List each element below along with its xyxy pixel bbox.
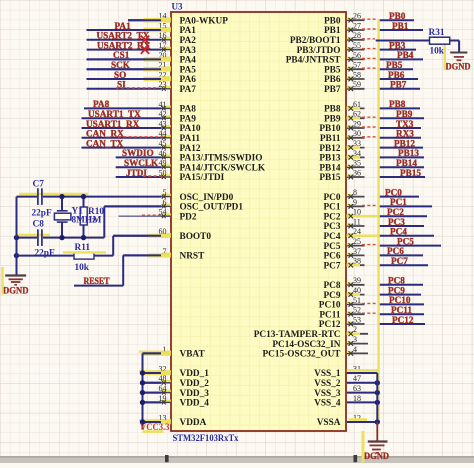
- pin 56 (PB4/JNTRST) with stub: [286, 51, 365, 66]
- svg-text:PB3: PB3: [389, 40, 406, 50]
- svg-text:PB6: PB6: [388, 70, 405, 80]
- net label PC6: [387, 246, 404, 256]
- ERC dash marker near pin 30: [362, 136, 378, 138]
- svg-text:11: 11: [353, 217, 361, 226]
- svg-text:PC13-TAMPER-RTC: PC13-TAMPER-RTC: [254, 330, 341, 340]
- pin 51 (PC10) with stub: [319, 296, 365, 311]
- net label PB3: [389, 40, 406, 50]
- resistor R31: [430, 37, 460, 44]
- ERC dash marker near pin 62: [362, 116, 378, 118]
- pin 47 (VSS_2) wire to VSS rail: [314, 374, 380, 389]
- svg-text:PA9: PA9: [180, 114, 197, 124]
- wire net PB12: [378, 147, 423, 149]
- net label PB7: [390, 80, 407, 90]
- pin 36 (PB15) with stub: [319, 168, 364, 183]
- svg-text:4: 4: [353, 345, 357, 354]
- net label PA8: [93, 99, 110, 109]
- svg-text:PB5: PB5: [324, 65, 341, 75]
- svg-text:34: 34: [353, 149, 361, 158]
- svg-text:PC1: PC1: [323, 203, 340, 213]
- svg-text:62: 62: [353, 110, 361, 119]
- ERC dash marker near pin 29: [362, 126, 378, 128]
- svg-text:PA0-WKUP: PA0-WKUP: [180, 16, 229, 26]
- svg-text:46: 46: [159, 149, 167, 158]
- pin 38 (PC7) with stub: [323, 257, 364, 272]
- svg-text:53: 53: [353, 315, 361, 324]
- pin 27 (PB1) with stub: [324, 21, 365, 36]
- net label SWCLK: [124, 158, 159, 168]
- svg-text:PA1: PA1: [115, 21, 132, 31]
- wire pin28 to R31: [376, 40, 430, 42]
- wire VSS rail vertical: [376, 373, 378, 422]
- svg-text:CAN_TX: CAN_TX: [86, 138, 124, 148]
- svg-text:PB8: PB8: [389, 99, 406, 109]
- wire highlight left ground: [1, 267, 3, 295]
- svg-text:BOOT0: BOOT0: [180, 232, 212, 242]
- wire highlight top rail: [19, 193, 88, 195]
- svg-text:PC3: PC3: [323, 222, 340, 232]
- junction node dots crystal: [14, 194, 86, 258]
- pin 61 (PB8) with stub: [324, 100, 365, 115]
- svg-text:47: 47: [353, 374, 361, 383]
- pin 40 (PC9) with stub: [323, 286, 364, 301]
- svg-text:17: 17: [159, 41, 167, 50]
- net label SO: [114, 70, 126, 80]
- net label SI: [117, 80, 126, 90]
- svg-text:PA4: PA4: [180, 56, 197, 66]
- net label PC10: [389, 295, 411, 305]
- label R11 designator: [75, 243, 91, 253]
- svg-text:23: 23: [159, 80, 167, 89]
- wire bottom rail: [17, 237, 105, 239]
- pin 41 (PA8) with stub wire: [84, 100, 196, 115]
- pin 32 (VDD_1) with stub wire: [139, 364, 209, 379]
- pin 16 (PA2) with stub wire: [87, 31, 197, 46]
- svg-text:24: 24: [353, 227, 361, 236]
- svg-text:RX3: RX3: [396, 129, 414, 139]
- net label PC4: [390, 227, 407, 237]
- svg-text:26: 26: [353, 12, 361, 21]
- svg-text:PB1: PB1: [324, 26, 341, 36]
- label STM32F103RxTx part name: [173, 434, 239, 444]
- net label PB9: [396, 109, 413, 119]
- svg-text:PB9: PB9: [324, 114, 341, 124]
- label C8 value 22pF: [35, 248, 55, 258]
- pin 13 (VDDA) with stub wire: [139, 413, 207, 428]
- svg-text:VDD_3: VDD_3: [180, 389, 210, 399]
- ground DGND (bottom right): [364, 422, 389, 462]
- pin 21 (PA5) with stub wire: [87, 61, 197, 76]
- svg-text:PB4: PB4: [397, 50, 414, 60]
- svg-text:PA10: PA10: [180, 124, 201, 134]
- ERC dash marker near pin 44: [118, 136, 163, 138]
- wire highlight VSS_1: [347, 369, 378, 372]
- svg-text:59: 59: [353, 80, 361, 89]
- svg-text:42: 42: [159, 110, 167, 119]
- pin 19 (VDD_4) with stub wire: [143, 394, 210, 409]
- pin 37 (PC6) with stub: [323, 247, 364, 262]
- wire net PB4: [378, 58, 423, 60]
- pin 50 (PA15/JTDI) with stub wire: [116, 168, 225, 183]
- svg-text:PB0: PB0: [389, 11, 406, 21]
- resistor R10: [80, 197, 87, 238]
- svg-text:VSS_2: VSS_2: [314, 379, 341, 389]
- svg-text:VSS_3: VSS_3: [314, 389, 341, 399]
- svg-text:PB9: PB9: [396, 109, 413, 119]
- net label RX3: [396, 129, 414, 139]
- ERC dash marker near pin 27: [362, 28, 378, 30]
- net label PB4: [397, 50, 414, 60]
- pin 9 (PC1) with stub: [323, 198, 364, 213]
- net label CAN_RX: [86, 129, 124, 139]
- svg-text:18: 18: [353, 394, 361, 403]
- svg-text:8: 8: [353, 188, 357, 197]
- svg-text:55: 55: [353, 41, 361, 50]
- wire net PC9: [378, 294, 421, 296]
- label R31 designator: [429, 28, 445, 38]
- svg-text:PC2: PC2: [387, 207, 404, 217]
- crystal Y1: [54, 197, 71, 238]
- ground DGND (left): [3, 276, 29, 297]
- svg-text:CS1: CS1: [113, 50, 130, 60]
- label C7 designator: [33, 180, 45, 190]
- label C8 designator: [33, 220, 45, 230]
- pin 12 (VSSA) wire to VSS rail: [317, 413, 380, 428]
- ERC dash marker near pin 52: [362, 312, 378, 314]
- svg-text:VDD_2: VDD_2: [180, 379, 210, 389]
- svg-text:16: 16: [159, 31, 167, 40]
- net label USART2_TX: [97, 31, 150, 41]
- svg-text:PC6: PC6: [323, 252, 340, 262]
- svg-text:PA8: PA8: [93, 99, 110, 109]
- svg-text:PC1: PC1: [390, 197, 407, 207]
- pin 2 (PC13-TAMPER-RTC) with stub: [254, 325, 368, 340]
- svg-text:PB5: PB5: [386, 60, 403, 70]
- svg-text:PB10: PB10: [319, 124, 341, 134]
- net label RESET: [84, 276, 110, 286]
- svg-text:1M: 1M: [88, 216, 102, 226]
- pin 35 (PB14) with stub: [319, 159, 364, 174]
- ERC dash marker near pin 25: [362, 244, 378, 246]
- net label CAN_TX: [86, 138, 124, 148]
- wire VDD rail vertical: [142, 353, 144, 429]
- pin 42 (PA9) with stub wire: [82, 110, 197, 125]
- pin 45 (PA12) with stub wire: [82, 139, 201, 154]
- pin 43 (PA10) with stub wire: [82, 119, 201, 134]
- net label PB8: [389, 99, 406, 109]
- pin 28 (PB2/BOOT1) with stub: [290, 31, 365, 46]
- svg-text:PC9: PC9: [388, 285, 405, 295]
- pin 4 (PC15-OSC32_OUT) with stub: [263, 345, 369, 360]
- pin 22 (PA6) with stub wire: [87, 70, 197, 85]
- ERC dash marker near pin 26: [362, 18, 378, 20]
- wire net PC12: [378, 323, 425, 325]
- svg-text:10k: 10k: [430, 47, 445, 57]
- svg-text:PB7: PB7: [390, 80, 407, 90]
- svg-text:PB12: PB12: [319, 144, 341, 154]
- wire net PB13: [378, 156, 424, 158]
- net label PB0: [389, 11, 406, 21]
- svg-text:DGND: DGND: [446, 63, 471, 73]
- pin 60 (BOOT0) with stub wire: [113, 227, 211, 242]
- wire net PB1: [378, 29, 423, 31]
- wire VDDA to VDD rail: [140, 419, 161, 424]
- ERC dash marker near pin 54: [142, 214, 162, 216]
- wire BOOT0 vertical: [112, 236, 114, 256]
- svg-text:VBAT: VBAT: [180, 350, 206, 360]
- svg-text:PC8: PC8: [388, 276, 405, 286]
- label U3 designator: [172, 2, 183, 12]
- svg-text:PB14: PB14: [319, 163, 341, 173]
- svg-text:PC5: PC5: [323, 242, 340, 252]
- svg-text:36: 36: [353, 168, 361, 177]
- svg-text:PB15: PB15: [400, 168, 421, 178]
- net label PC9: [388, 285, 405, 295]
- svg-text:PC5: PC5: [397, 236, 414, 246]
- wire highlight R31 ground: [444, 45, 446, 70]
- svg-text:PA6: PA6: [180, 75, 197, 85]
- ERC dash marker near pin 28: [362, 38, 375, 40]
- svg-text:NRST: NRST: [180, 252, 206, 262]
- svg-text:52: 52: [353, 306, 361, 315]
- ERC dash marker near pin 55: [362, 48, 378, 50]
- wire net PC5: [378, 245, 441, 247]
- svg-text:VSSA: VSSA: [317, 418, 341, 428]
- svg-text:PA14/JTCK/SWCLK: PA14/JTCK/SWCLK: [180, 163, 266, 173]
- svg-text:35: 35: [353, 159, 361, 168]
- svg-text:RESET: RESET: [84, 276, 110, 286]
- net label PB12: [394, 138, 415, 148]
- svg-text:PC11: PC11: [319, 310, 341, 320]
- ERC dash marker near pin 57: [362, 67, 378, 69]
- pin 48 (VDD_2) with stub wire: [143, 374, 210, 389]
- svg-text:PC10: PC10: [319, 301, 341, 311]
- net label PB15: [400, 168, 421, 178]
- pin 52 (PC11) with stub: [319, 306, 364, 321]
- ERC dash marker near pin 50: [143, 175, 165, 177]
- ground DGND (R31): [446, 41, 471, 73]
- pin 57 (PB5) with stub: [324, 61, 365, 76]
- net label PC5: [397, 236, 414, 246]
- wire highlight bottom rail: [17, 234, 50, 236]
- wire highlight below chip: [362, 431, 365, 463]
- wire net PB0: [378, 19, 414, 21]
- net label PC3: [388, 217, 405, 227]
- wire net PB9: [378, 117, 424, 119]
- ERC dash marker near pin 23: [116, 87, 159, 89]
- svg-text:PB1: PB1: [392, 21, 409, 31]
- pin 62 (PB9) with stub: [324, 110, 365, 125]
- pin 17 (PA3) with stub wire: [87, 41, 197, 56]
- net label PC1: [390, 197, 407, 207]
- svg-text:33: 33: [353, 139, 361, 148]
- wire net PC1: [378, 205, 432, 207]
- svg-text:9: 9: [353, 198, 357, 207]
- svg-text:2: 2: [353, 325, 357, 334]
- net label SCK: [111, 60, 131, 70]
- pin 10 (PC2) with stub: [323, 208, 377, 223]
- wire net PC4: [378, 235, 434, 237]
- label R10 value 1M: [88, 216, 102, 226]
- net label PB5: [386, 60, 403, 70]
- svg-text:39: 39: [353, 276, 361, 285]
- wire highlight right rail: [377, 19, 379, 422]
- svg-text:DGND: DGND: [3, 287, 29, 297]
- wire OSC_OUT: [104, 206, 161, 237]
- svg-text:VDDA: VDDA: [180, 418, 207, 428]
- wire net PC0: [378, 196, 419, 198]
- svg-text:PC3: PC3: [388, 217, 405, 227]
- svg-text:VSS_4: VSS_4: [314, 399, 341, 409]
- svg-text:PB0: PB0: [324, 16, 341, 26]
- svg-text:27: 27: [353, 21, 361, 30]
- pin 7 (NRST) with stub wire: [123, 247, 205, 262]
- pin 55 (PB3/JTDO) with stub: [297, 41, 365, 56]
- wire net PB8: [378, 107, 420, 109]
- pin 49 (PA14/JTCK/SWCLK) with stub wire: [116, 159, 266, 174]
- svg-text:DGND: DGND: [364, 452, 389, 462]
- svg-text:PC0: PC0: [385, 187, 402, 197]
- wire OSC_IN top rail: [17, 196, 162, 198]
- svg-text:OSC_IN/PD0: OSC_IN/PD0: [180, 193, 234, 203]
- svg-text:PC4: PC4: [390, 227, 407, 237]
- label R11 value 10k: [75, 263, 90, 273]
- svg-text:38: 38: [353, 257, 361, 266]
- pin 30 (PB11) with stub: [320, 129, 365, 144]
- svg-text:37: 37: [353, 247, 361, 256]
- svg-text:PA11: PA11: [180, 134, 201, 144]
- pin 29 (PB10) with stub: [319, 119, 364, 134]
- label Y1 value 8MHz: [72, 216, 97, 226]
- label C7 value 22pF: [32, 208, 52, 218]
- svg-text:51: 51: [353, 296, 361, 305]
- svg-text:PC12: PC12: [392, 315, 414, 325]
- svg-text:PB6: PB6: [324, 75, 341, 85]
- wire highlight VSSA: [349, 418, 367, 421]
- ERC cross marker near pin 17: [141, 45, 149, 53]
- svg-text:49: 49: [159, 159, 167, 168]
- pin 6 (OSC_OUT/PD1) with stub wire: [104, 198, 243, 213]
- svg-text:USART1_TX: USART1_TX: [88, 109, 141, 119]
- svg-text:VSS_1: VSS_1: [314, 369, 341, 379]
- svg-text:56: 56: [353, 51, 361, 60]
- pin 18 (VSS_4) wire to VSS rail: [314, 394, 380, 409]
- net label PC0: [385, 187, 402, 197]
- resistor R11: [17, 253, 114, 259]
- pin 25 (PC5) with stub: [323, 237, 364, 252]
- svg-text:PC6: PC6: [387, 246, 404, 256]
- net label CS1: [113, 50, 130, 60]
- pin 53 (PC12) with stub: [319, 315, 365, 330]
- ERC dash marker near pin 56: [362, 57, 378, 59]
- svg-text:28: 28: [353, 31, 361, 40]
- net label PB6: [388, 70, 405, 80]
- svg-text:OSC_OUT/PD1: OSC_OUT/PD1: [180, 203, 244, 213]
- pin 24 (PC4) with stub: [323, 227, 377, 242]
- wire highlight R11: [63, 251, 106, 253]
- pin 3 (PC14-OSC32_IN) with stub: [272, 335, 368, 350]
- svg-text:PA13/JTMS/SWDIO: PA13/JTMS/SWDIO: [180, 154, 263, 164]
- svg-text:R31: R31: [429, 28, 445, 38]
- svg-text:5: 5: [163, 188, 167, 197]
- svg-text:PB15: PB15: [319, 173, 341, 183]
- pin 39 (PC8) with stub: [323, 276, 364, 291]
- svg-text:61: 61: [353, 100, 361, 109]
- svg-text:PC7: PC7: [323, 261, 340, 271]
- svg-text:29: 29: [353, 119, 361, 128]
- power port VCC3.3: [140, 423, 170, 433]
- svg-text:USART2_RX: USART2_RX: [97, 40, 151, 50]
- svg-text:PC9: PC9: [323, 291, 340, 301]
- label Y1 designator: [72, 207, 84, 217]
- svg-text:58: 58: [353, 70, 361, 79]
- svg-text:VDD_4: VDD_4: [180, 399, 210, 409]
- capacitor C8: [38, 229, 42, 246]
- svg-text:3: 3: [353, 335, 357, 344]
- svg-text:22pF: 22pF: [32, 208, 52, 218]
- svg-text:STM32F103RxTx: STM32F103RxTx: [173, 434, 239, 444]
- svg-text:PA12: PA12: [180, 144, 201, 154]
- svg-text:10: 10: [353, 208, 361, 217]
- svg-text:PA1: PA1: [180, 26, 197, 36]
- pin 14 (PA0-WKUP) with stub wire: [128, 12, 228, 27]
- svg-text:PC8: PC8: [323, 281, 340, 291]
- svg-text:PC4: PC4: [323, 232, 340, 242]
- svg-text:SCK: SCK: [111, 60, 131, 70]
- svg-text:PA15/JTDI: PA15/JTDI: [180, 173, 225, 183]
- wire net PB6: [378, 78, 418, 80]
- svg-text:45: 45: [159, 139, 167, 148]
- svg-text:PC10: PC10: [389, 295, 411, 305]
- svg-text:PA7: PA7: [180, 85, 197, 95]
- svg-text:31: 31: [353, 364, 361, 373]
- svg-text:PC7: PC7: [391, 256, 408, 266]
- wire NRST to RESET: [74, 255, 123, 285]
- svg-text:PB13: PB13: [398, 148, 419, 158]
- svg-text:22pF: 22pF: [35, 248, 55, 258]
- pin 64 (VDD_3) with stub wire: [143, 384, 210, 399]
- wire net PC11: [378, 313, 424, 315]
- svg-text:SO: SO: [114, 70, 126, 80]
- net label PB13: [398, 148, 419, 158]
- wire net PB15: [378, 176, 425, 178]
- pin 63 (VSS_3) wire to VSS rail: [314, 384, 380, 399]
- svg-text:PC14-OSC32_IN: PC14-OSC32_IN: [272, 340, 340, 350]
- pin 23 (PA7) with stub wire: [87, 80, 197, 95]
- net label PC11: [391, 305, 412, 315]
- wire net PC6: [378, 254, 423, 256]
- capacitor C7: [38, 188, 42, 205]
- svg-text:PB14: PB14: [396, 158, 417, 168]
- net label PC8: [388, 276, 405, 286]
- net label PB14: [396, 158, 417, 168]
- pin 58 (PB6) with stub: [324, 70, 365, 85]
- net label JTDI: [126, 168, 147, 178]
- wire net PB14: [378, 166, 424, 168]
- net label TX3: [396, 119, 414, 129]
- wire net PB3: [378, 49, 416, 51]
- wire net PB7: [378, 88, 420, 90]
- svg-text:PA2: PA2: [180, 36, 197, 46]
- net label USART2_RX: [97, 40, 151, 50]
- wire net TX3: [378, 127, 421, 129]
- wire VDD_1 to VDD rail: [140, 370, 161, 375]
- svg-text:PB7: PB7: [324, 85, 341, 95]
- svg-text:10k: 10k: [75, 263, 90, 273]
- pin 11 (PC3) with stub: [323, 217, 364, 232]
- net label PC2: [387, 207, 404, 217]
- net label PA1: [115, 21, 132, 31]
